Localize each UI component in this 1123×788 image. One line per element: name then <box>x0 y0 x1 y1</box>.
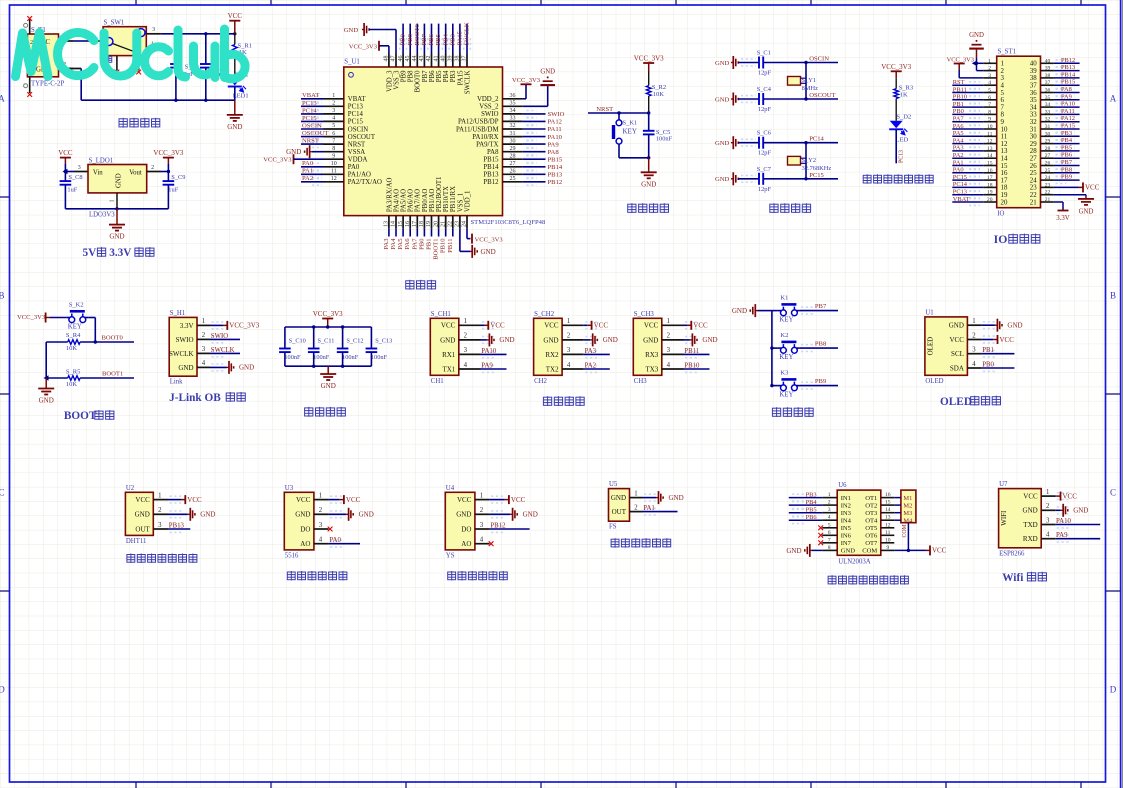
svg-text:GND: GND <box>1007 322 1022 330</box>
svg-text:VCC_3V3: VCC_3V3 <box>512 77 541 84</box>
svg-text:12pF: 12pF <box>758 150 772 157</box>
svg-text:PB14: PB14 <box>548 164 563 171</box>
svg-text:B: B <box>1110 291 1116 301</box>
svg-text:18: 18 <box>419 221 425 227</box>
svg-text:OSCIN: OSCIN <box>348 126 368 133</box>
svg-text:1uF: 1uF <box>67 187 77 194</box>
svg-text:23: 23 <box>1030 185 1037 192</box>
svg-text:25: 25 <box>1030 170 1037 177</box>
svg-text:20: 20 <box>1001 199 1008 206</box>
svg-text:PC14: PC14 <box>302 107 317 114</box>
svg-text:DO: DO <box>300 525 310 533</box>
svg-text:2: 2 <box>480 507 484 514</box>
svg-text:33: 33 <box>1045 109 1051 115</box>
svg-text:VCC: VCC <box>441 322 456 330</box>
svg-text:27: 27 <box>1030 156 1037 163</box>
svg-text:PB4: PB4 <box>442 33 449 45</box>
svg-text:3: 3 <box>152 27 155 33</box>
svg-text:25: 25 <box>510 176 516 182</box>
svg-text:PA10: PA10 <box>481 348 496 355</box>
svg-text:S_C4: S_C4 <box>757 86 772 93</box>
svg-text:PB11: PB11 <box>684 348 699 355</box>
svg-text:GND: GND <box>440 336 455 344</box>
svg-text:NRST: NRST <box>302 138 319 145</box>
svg-text:PA6/AO: PA6/AO <box>408 189 415 212</box>
svg-text:29: 29 <box>510 146 516 152</box>
svg-text:GND: GND <box>200 511 215 519</box>
svg-text:PB12: PB12 <box>1061 57 1075 64</box>
svg-text:BOOT1: BOOT1 <box>433 239 440 260</box>
svg-text:VCC: VCC <box>58 149 73 157</box>
svg-text:26: 26 <box>1030 163 1037 170</box>
svg-text:S_D2: S_D2 <box>896 113 911 120</box>
svg-text:IO: IO <box>994 233 1008 246</box>
svg-text:VCC: VCC <box>511 496 526 504</box>
svg-text:YS: YS <box>446 552 455 559</box>
svg-text:1: 1 <box>202 318 205 325</box>
svg-text:PA12/USB/DP: PA12/USB/DP <box>458 119 499 126</box>
svg-text:J-Link OB: J-Link OB <box>169 392 221 404</box>
svg-text:10: 10 <box>885 537 891 543</box>
svg-text:100nF: 100nF <box>313 354 330 361</box>
svg-text:PB4: PB4 <box>1061 137 1073 144</box>
svg-text:37: 37 <box>1030 83 1037 90</box>
svg-text:14: 14 <box>885 507 891 513</box>
svg-text:8: 8 <box>1001 112 1005 119</box>
svg-text:PB0: PB0 <box>982 361 994 368</box>
svg-text:KEY: KEY <box>623 128 637 136</box>
svg-text:PB7: PB7 <box>422 70 429 82</box>
svg-text:24: 24 <box>1030 177 1037 184</box>
svg-text:36: 36 <box>1045 88 1051 94</box>
svg-text:PA12: PA12 <box>1061 115 1075 122</box>
svg-text:PB2/BOOT1: PB2/BOOT1 <box>436 177 443 213</box>
svg-text:28: 28 <box>1030 148 1037 155</box>
svg-text:16: 16 <box>987 168 993 174</box>
svg-text:17: 17 <box>1001 177 1008 184</box>
svg-text:35: 35 <box>510 101 516 107</box>
svg-text:OLED: OLED <box>940 396 972 408</box>
svg-text:38: 38 <box>455 56 461 62</box>
svg-text:OSCOUT: OSCOUT <box>302 130 328 137</box>
svg-text:IN6: IN6 <box>841 533 852 540</box>
svg-text:GND: GND <box>135 511 150 519</box>
svg-text:U5: U5 <box>609 481 618 488</box>
svg-text:PA10: PA10 <box>1061 101 1075 108</box>
svg-text:46: 46 <box>398 56 404 62</box>
svg-text:20: 20 <box>433 221 439 227</box>
svg-text:5516: 5516 <box>285 552 299 559</box>
svg-text:22: 22 <box>1030 192 1037 199</box>
svg-text:1: 1 <box>319 492 322 499</box>
svg-text:VCC: VCC <box>1085 184 1100 192</box>
svg-text:PC15: PC15 <box>953 174 967 181</box>
svg-text:PB1: PB1 <box>426 239 433 250</box>
svg-text:PA1: PA1 <box>643 505 654 512</box>
svg-text:40: 40 <box>1030 61 1037 68</box>
svg-text:7: 7 <box>332 138 335 144</box>
svg-text:BOOT: BOOT <box>64 410 97 422</box>
svg-text:12: 12 <box>1001 141 1008 148</box>
svg-text:BOOT0: BOOT0 <box>414 24 421 46</box>
svg-text:PB3: PB3 <box>450 70 457 82</box>
svg-text:13: 13 <box>384 221 390 227</box>
svg-text:S_H1: S_H1 <box>170 310 186 317</box>
svg-text:22: 22 <box>448 221 454 227</box>
svg-text:PB14: PB14 <box>1061 71 1076 78</box>
svg-text:SCL: SCL <box>951 350 964 358</box>
svg-text:S_C11: S_C11 <box>318 338 335 345</box>
svg-text:VSSA: VSSA <box>348 149 365 156</box>
svg-text:38: 38 <box>1045 73 1051 79</box>
svg-text:4: 4 <box>319 537 323 544</box>
svg-text:U1: U1 <box>925 309 933 316</box>
svg-text:IN7: IN7 <box>841 540 852 547</box>
svg-text:PB3: PB3 <box>1061 130 1072 137</box>
svg-text:5V: 5V <box>83 247 98 259</box>
svg-text:PB15: PB15 <box>483 157 499 164</box>
svg-text:PB4: PB4 <box>806 499 818 506</box>
svg-text:PA7/AO: PA7/AO <box>415 189 422 212</box>
svg-text:S_C1: S_C1 <box>757 50 771 57</box>
svg-text:VCC: VCC <box>490 322 505 330</box>
svg-text:SWCLK: SWCLK <box>211 347 235 354</box>
svg-text:2: 2 <box>667 333 671 340</box>
svg-text:3: 3 <box>158 522 162 529</box>
svg-text:PB12: PB12 <box>548 179 563 186</box>
svg-text:PA8: PA8 <box>487 149 499 156</box>
svg-text:37: 37 <box>462 56 468 62</box>
svg-text:32.768KHz: 32.768KHz <box>802 165 832 172</box>
svg-text:SWIO: SWIO <box>481 111 498 118</box>
svg-text:28: 28 <box>1045 146 1051 152</box>
svg-text:31: 31 <box>510 131 516 137</box>
svg-text:OLED: OLED <box>926 337 934 356</box>
svg-text:21: 21 <box>1030 199 1037 206</box>
svg-text:100nF: 100nF <box>371 354 388 361</box>
svg-text:23: 23 <box>1045 182 1051 188</box>
svg-text:PC13: PC13 <box>953 189 967 196</box>
svg-text:1: 1 <box>634 490 637 497</box>
svg-text:PC15: PC15 <box>348 119 364 126</box>
svg-text:PB11: PB11 <box>447 239 454 253</box>
svg-text:30: 30 <box>1030 134 1037 141</box>
svg-text:VCC: VCC <box>693 322 708 330</box>
svg-text:NRST: NRST <box>348 141 366 148</box>
svg-text:9: 9 <box>886 545 889 551</box>
svg-text:VCC: VCC <box>1023 493 1038 501</box>
svg-text:SWCLK: SWCLK <box>464 70 471 94</box>
svg-text:PC14: PC14 <box>953 181 968 188</box>
svg-text:OSCOUT: OSCOUT <box>348 134 376 141</box>
svg-text:2: 2 <box>202 332 206 339</box>
svg-text:3: 3 <box>988 73 991 79</box>
svg-text:1: 1 <box>972 318 975 325</box>
svg-text:3: 3 <box>332 108 335 114</box>
svg-text:1: 1 <box>110 200 116 203</box>
svg-text:13: 13 <box>885 515 891 521</box>
svg-text:3: 3 <box>828 507 831 513</box>
svg-text:VCC: VCC <box>135 496 150 504</box>
svg-text:PA2/TX/AO: PA2/TX/AO <box>348 179 382 186</box>
svg-text:3.3V: 3.3V <box>1056 215 1069 222</box>
svg-text:6: 6 <box>828 530 831 536</box>
svg-text:3: 3 <box>667 347 671 354</box>
svg-text:PC15: PC15 <box>809 172 824 179</box>
svg-text:PB10: PB10 <box>684 362 700 369</box>
svg-text:VBAT: VBAT <box>348 96 367 103</box>
svg-text:19: 19 <box>987 190 993 196</box>
svg-text:VSS_1: VSS_1 <box>457 193 464 212</box>
svg-text:15: 15 <box>398 221 404 227</box>
svg-text:PB7: PB7 <box>815 303 827 310</box>
svg-text:33: 33 <box>1030 112 1037 119</box>
svg-text:COM: COM <box>862 548 877 555</box>
svg-text:14: 14 <box>987 153 993 159</box>
svg-text:KEY: KEY <box>779 317 793 324</box>
svg-text:PB11: PB11 <box>953 86 967 93</box>
svg-text:PA3: PA3 <box>383 238 390 250</box>
svg-text:PB1/AO: PB1/AO <box>429 189 436 213</box>
svg-text:7: 7 <box>1001 104 1005 111</box>
svg-text:5: 5 <box>828 522 831 528</box>
svg-text:40: 40 <box>440 56 446 62</box>
svg-text:Vin: Vin <box>93 169 103 176</box>
svg-text:36: 36 <box>1030 90 1037 97</box>
svg-text:38: 38 <box>1030 75 1037 82</box>
svg-text:OSCIN: OSCIN <box>302 122 322 129</box>
svg-text:4: 4 <box>202 360 206 367</box>
svg-text:VSS_2: VSS_2 <box>479 104 499 111</box>
svg-text:2: 2 <box>567 333 571 340</box>
svg-text:1: 1 <box>988 58 991 64</box>
svg-text:30: 30 <box>1045 131 1051 137</box>
svg-text:S_K1: S_K1 <box>623 120 638 127</box>
svg-text:VCC: VCC <box>932 547 947 555</box>
svg-text:3: 3 <box>567 347 571 354</box>
svg-text:S_ST1: S_ST1 <box>998 49 1017 56</box>
svg-text:Link: Link <box>170 379 183 386</box>
svg-text:U2: U2 <box>126 485 135 492</box>
svg-text:PA10: PA10 <box>548 134 563 141</box>
svg-text:PA1: PA1 <box>953 159 964 166</box>
svg-text:PA11: PA11 <box>548 126 562 133</box>
svg-text:PB0: PB0 <box>418 238 425 250</box>
svg-text:PA1/AO: PA1/AO <box>348 172 371 179</box>
svg-text:GND: GND <box>540 69 555 76</box>
svg-text:PB1: PB1 <box>953 101 964 108</box>
svg-text:VCC_3V3: VCC_3V3 <box>263 157 292 164</box>
svg-text:KEY: KEY <box>779 354 793 361</box>
svg-text:2: 2 <box>1046 503 1050 510</box>
svg-text:3: 3 <box>319 522 323 529</box>
svg-text:15: 15 <box>1001 163 1008 170</box>
svg-text:GND: GND <box>543 336 558 344</box>
svg-text:PA15: PA15 <box>457 70 464 85</box>
svg-text:7: 7 <box>828 537 831 543</box>
svg-text:12: 12 <box>885 522 891 528</box>
svg-text:9: 9 <box>1001 119 1005 126</box>
svg-text:WIFI: WIFI <box>1000 510 1008 526</box>
svg-text:10K: 10K <box>66 381 78 388</box>
svg-text:44: 44 <box>412 56 418 62</box>
svg-text:SWIO: SWIO <box>548 111 565 118</box>
svg-text:28: 28 <box>510 153 516 159</box>
svg-text:2: 2 <box>319 507 323 514</box>
svg-text:SWCLK: SWCLK <box>169 350 194 358</box>
svg-text:IN3: IN3 <box>841 510 852 517</box>
svg-text:VCC_3V3: VCC_3V3 <box>881 63 911 71</box>
svg-text:VCC_3V3: VCC_3V3 <box>349 43 378 50</box>
svg-text:KEY: KEY <box>779 392 793 399</box>
svg-text:GND: GND <box>715 96 730 103</box>
svg-text:18: 18 <box>1001 185 1008 192</box>
svg-text:TX1: TX1 <box>442 365 455 373</box>
svg-text:15: 15 <box>885 500 891 506</box>
svg-text:RST: RST <box>953 79 965 86</box>
svg-text:TXD: TXD <box>1023 521 1037 529</box>
svg-text:33: 33 <box>510 116 516 122</box>
svg-text:4: 4 <box>332 116 335 122</box>
svg-text:3.3V: 3.3V <box>180 322 194 330</box>
svg-text:17: 17 <box>412 221 418 227</box>
svg-text:AO: AO <box>461 540 471 548</box>
svg-text:5: 5 <box>1001 90 1005 97</box>
svg-text:32: 32 <box>1045 117 1051 123</box>
svg-text:PB6: PB6 <box>428 33 435 45</box>
svg-text:PA11: PA11 <box>1061 108 1075 115</box>
svg-text:47: 47 <box>391 56 397 62</box>
svg-text:PA0: PA0 <box>329 537 341 544</box>
svg-text:PB8: PB8 <box>815 340 827 347</box>
svg-text:SWIO: SWIO <box>211 333 228 340</box>
svg-text:BOOT1: BOOT1 <box>102 371 123 378</box>
svg-text:2: 2 <box>1001 68 1005 75</box>
svg-text:VCC: VCC <box>644 322 659 330</box>
svg-text:OT4: OT4 <box>865 518 878 525</box>
svg-text:PA2: PA2 <box>302 175 313 182</box>
svg-text:VBAT: VBAT <box>302 92 319 99</box>
svg-text:100nF: 100nF <box>342 354 359 361</box>
svg-text:GND: GND <box>715 176 730 183</box>
svg-text:PA3: PA3 <box>585 348 597 355</box>
svg-text:10: 10 <box>1001 126 1008 133</box>
svg-text:S_U1: S_U1 <box>344 59 360 66</box>
svg-text:S_C6: S_C6 <box>757 130 771 137</box>
svg-text:PA3: PA3 <box>953 145 964 152</box>
svg-text:GND: GND <box>702 336 717 344</box>
svg-text:1: 1 <box>567 318 570 325</box>
svg-text:GND: GND <box>969 32 984 39</box>
svg-text:GND: GND <box>643 336 658 344</box>
svg-text:PC14: PC14 <box>809 136 824 143</box>
svg-text:S_CH1: S_CH1 <box>431 311 451 318</box>
svg-text:PA4: PA4 <box>390 238 397 250</box>
svg-text:VCC: VCC <box>346 496 361 504</box>
svg-text:PC13: PC13 <box>899 150 905 163</box>
svg-text:24: 24 <box>1045 175 1051 181</box>
svg-text:LED: LED <box>896 136 909 143</box>
svg-text:OT2: OT2 <box>865 502 877 509</box>
svg-text:OT1: OT1 <box>865 495 877 502</box>
svg-text:4: 4 <box>667 362 671 369</box>
svg-text:GND: GND <box>1073 507 1088 515</box>
svg-text:2: 2 <box>972 332 976 339</box>
svg-text:22: 22 <box>1045 190 1051 196</box>
svg-text:4: 4 <box>464 362 468 369</box>
svg-text:PB9: PB9 <box>1061 174 1072 181</box>
svg-text:1: 1 <box>1046 489 1049 496</box>
svg-text:PB10: PB10 <box>440 238 447 253</box>
svg-text:8: 8 <box>828 545 831 551</box>
svg-text:S_C10: S_C10 <box>289 338 306 345</box>
svg-text:IN5: IN5 <box>841 525 852 532</box>
svg-text:4: 4 <box>1046 532 1050 539</box>
svg-text:GND: GND <box>481 248 496 256</box>
svg-text:2: 2 <box>988 66 991 72</box>
svg-text:PB13: PB13 <box>483 172 499 179</box>
svg-text:16: 16 <box>885 492 891 498</box>
svg-text:PA2: PA2 <box>585 362 597 369</box>
svg-text:2: 2 <box>332 101 335 107</box>
svg-text:KEY: KEY <box>68 324 82 331</box>
svg-text:PA9/TX: PA9/TX <box>476 141 499 148</box>
svg-text:41: 41 <box>433 56 439 62</box>
svg-text:PA7: PA7 <box>953 116 965 123</box>
svg-text:VCC_3V3: VCC_3V3 <box>17 314 46 321</box>
svg-text:GND: GND <box>669 494 684 502</box>
svg-text:GND: GND <box>109 233 124 241</box>
svg-text:PB15: PB15 <box>1061 79 1075 86</box>
svg-text:GND: GND <box>499 336 514 344</box>
svg-text:13: 13 <box>1001 148 1008 155</box>
svg-text:VCC: VCC <box>187 496 202 504</box>
svg-text:3: 3 <box>78 165 81 171</box>
svg-text:Wifi: Wifi <box>1002 572 1023 584</box>
svg-text:39: 39 <box>448 56 454 62</box>
svg-text:OSCIN: OSCIN <box>809 56 829 63</box>
svg-text:GND: GND <box>641 180 656 188</box>
svg-text:GND: GND <box>1079 209 1094 216</box>
svg-text:PA7: PA7 <box>411 238 418 250</box>
svg-text:11: 11 <box>1001 134 1008 141</box>
svg-text:BOOT0: BOOT0 <box>415 70 422 93</box>
svg-text:U6: U6 <box>838 482 847 489</box>
svg-text:GND: GND <box>1023 507 1038 515</box>
svg-text:48: 48 <box>384 56 390 62</box>
svg-text:S_C7: S_C7 <box>757 166 772 173</box>
svg-text:S_R4: S_R4 <box>66 332 81 339</box>
svg-text:PA10: PA10 <box>1056 518 1071 525</box>
svg-text:PA15: PA15 <box>457 30 464 45</box>
svg-text:GND: GND <box>786 547 801 555</box>
svg-text:PB14: PB14 <box>483 164 499 171</box>
svg-text:12: 12 <box>987 139 993 145</box>
svg-text:C: C <box>0 488 5 498</box>
svg-text:OSCOUT: OSCOUT <box>809 92 835 99</box>
svg-text:FS: FS <box>609 524 617 531</box>
svg-text:S_CH2: S_CH2 <box>534 311 555 318</box>
svg-text:1: 1 <box>332 93 335 99</box>
svg-text:5: 5 <box>332 123 335 129</box>
svg-text:26: 26 <box>1045 161 1051 167</box>
svg-text:1: 1 <box>158 492 161 499</box>
svg-text:31: 31 <box>1030 126 1037 133</box>
svg-text:24: 24 <box>462 221 468 227</box>
svg-text:GND: GND <box>227 123 242 131</box>
svg-text:27: 27 <box>1045 153 1051 159</box>
svg-text:S_C9: S_C9 <box>171 174 185 181</box>
